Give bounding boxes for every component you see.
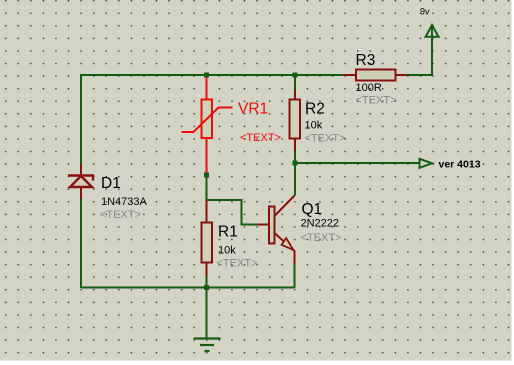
svg-text:VR1: VR1	[238, 101, 268, 118]
resistor R2	[290, 75, 301, 163]
label <TEXT> R1	[217, 258, 258, 270]
svg-text:1N4733A: 1N4733A	[101, 196, 148, 208]
svg-text:R2: R2	[305, 101, 325, 118]
label ver 4013	[439, 159, 481, 171]
label R1	[218, 224, 238, 241]
svg-text:10k: 10k	[305, 120, 323, 132]
junction node: top R2	[293, 73, 298, 78]
svg-text:<TEXT>: <TEXT>	[100, 209, 141, 221]
svg-text:2N2222: 2N2222	[301, 218, 340, 230]
thermistor VR1 (selected, red)	[182, 75, 233, 175]
label 1N4733A	[101, 196, 148, 208]
label <TEXT> R3	[356, 95, 397, 107]
transistor Q1	[257, 196, 295, 265]
wire: emitter to bottom rail	[294, 264, 296, 288]
label <TEXT> Q1	[301, 232, 342, 244]
junction node: top VR1	[204, 73, 209, 78]
label D1	[101, 175, 121, 192]
output terminal arrow	[420, 159, 433, 168]
wire: R3 right pin to 9v corner	[407, 25, 432, 75]
svg-text:100R: 100R	[356, 82, 382, 94]
svg-text:R1: R1	[218, 224, 238, 241]
wire: left rail upper (to D1)	[80, 75, 82, 164]
label R3	[356, 52, 376, 69]
wire: VR1 junction down to R1	[206, 175, 208, 200]
resistor R3	[343, 70, 407, 81]
label Q1	[302, 201, 323, 218]
junction node: ground rail	[204, 285, 209, 290]
wire: junction down to Q1 collector	[294, 163, 296, 196]
label 2N2222	[301, 218, 340, 230]
label 100R	[356, 82, 382, 94]
zener diode D1	[68, 164, 93, 199]
wire: left rail lower (D1 to bottom)	[80, 199, 82, 288]
svg-text:R3: R3	[356, 52, 376, 69]
label R2	[305, 101, 325, 118]
svg-text:ver 4013: ver 4013	[439, 159, 481, 171]
label 9v	[420, 7, 430, 17]
wire: ground drop	[206, 288, 208, 339]
label <TEXT> VR1	[240, 132, 281, 144]
svg-text:10k: 10k	[218, 245, 236, 257]
wire: R1 bottom to ground junction	[206, 276, 208, 288]
label VR1	[238, 101, 268, 118]
wire: bottom rail	[81, 287, 295, 289]
label <TEXT> D1	[100, 209, 141, 221]
svg-text:D1: D1	[101, 175, 121, 192]
label <TEXT> R2	[305, 133, 346, 145]
wire: top rail from left corner to R3 left pin	[81, 75, 343, 288]
wire: output run to terminal	[295, 162, 420, 164]
junction node: R2/output/collector	[293, 161, 298, 166]
svg-text:Q1: Q1	[302, 201, 323, 218]
svg-text:9v: 9v	[420, 7, 430, 17]
svg-text:<TEXT>: <TEXT>	[240, 132, 281, 144]
svg-text:<TEXT>: <TEXT>	[356, 95, 397, 107]
svg-text:<TEXT>: <TEXT>	[217, 258, 258, 270]
svg-text:<TEXT>: <TEXT>	[301, 232, 342, 244]
junction node: VR1/R1/base	[204, 173, 209, 178]
svg-text:<TEXT>: <TEXT>	[305, 133, 346, 145]
resistor R1	[202, 200, 213, 276]
wire: base feed (stepped)	[207, 200, 258, 225]
label 10k R1	[218, 245, 236, 257]
label 10k R2	[305, 120, 323, 132]
ground symbol	[194, 339, 221, 352]
power terminal 9v	[426, 25, 439, 37]
